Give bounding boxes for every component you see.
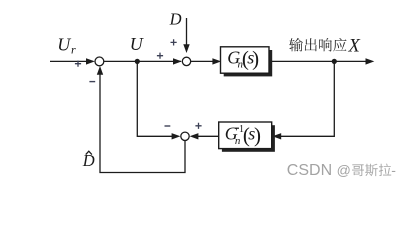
block U1 Gn(s): [221, 47, 270, 73]
arrowhead into S3 from right: [190, 133, 199, 139]
arrowhead output: [366, 58, 375, 64]
arrowhead into inverse block: [272, 133, 281, 139]
wire block Gn to output: [269, 60, 367, 62]
wire inverse block to S3: [197, 135, 219, 137]
svg-text:n: n: [235, 135, 241, 147]
svg-text:CSDN @: CSDN @: [287, 162, 351, 179]
label Gn^-1(s): [225, 123, 261, 147]
arrowhead into S2 from left: [173, 58, 182, 64]
watermark CJK name: [352, 164, 391, 177]
block U2 inverse Gn: [219, 122, 272, 149]
arrowhead into S3 from left: [172, 133, 181, 139]
svg-text:D: D: [169, 10, 182, 29]
sign plus at S3 right: [195, 123, 201, 129]
label CJK output response: [289, 38, 346, 52]
label Gn(s): [227, 47, 259, 71]
sign plus for D input: [171, 39, 177, 45]
svg-text:-: -: [391, 162, 396, 178]
wire disturbance D drop: [186, 18, 188, 46]
wire S1 to S2: [104, 60, 181, 62]
sign minus below S1: [89, 81, 95, 83]
summing junction S3: [181, 132, 189, 140]
wire S3 bottom feedback up to S1: [100, 73, 185, 173]
wire output node down to inverse block: [280, 61, 334, 136]
block U1 Gn(s) shadow: [224, 50, 273, 76]
arrowhead into S1: [86, 58, 95, 64]
sign minus at S3 left: [165, 125, 171, 127]
svg-text:X: X: [348, 37, 361, 57]
sign plus before S2: [157, 53, 163, 59]
svg-text:Ur: Ur: [57, 35, 76, 57]
node output junction dot: [332, 59, 337, 64]
summing junction S2: [182, 57, 190, 65]
svg-text:): ): [254, 123, 261, 147]
hat accent: [86, 151, 92, 154]
node U junction dot: [135, 59, 140, 64]
sign plus at S1 input: [75, 61, 81, 67]
wire node U down to S3: [137, 61, 173, 136]
wire input Ur: [50, 60, 93, 62]
wire S2 to block Gn: [191, 60, 213, 62]
summing junction S1: [95, 57, 104, 66]
svg-text:): ): [252, 47, 259, 71]
svg-text:U: U: [130, 34, 144, 54]
block U2 inverse Gn shadow: [222, 125, 275, 152]
arrowhead feedback into S1 from below: [97, 66, 103, 75]
svg-text:D: D: [82, 151, 95, 170]
arrowhead into block Gn: [212, 58, 221, 64]
arrowhead D into S2 from top: [183, 44, 189, 53]
